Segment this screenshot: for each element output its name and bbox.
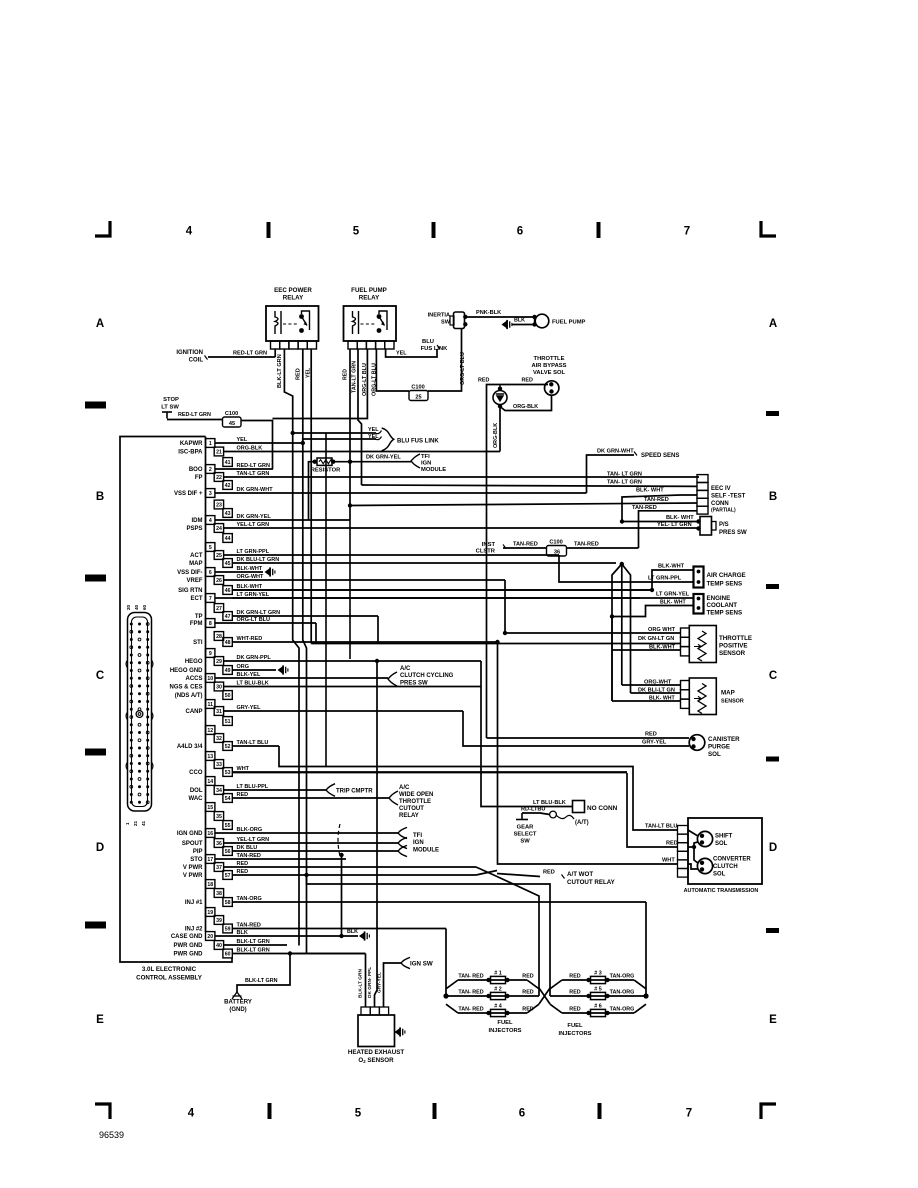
fusible link BLU FUS LINK (upper) <box>375 428 439 451</box>
border tick bottom 2 <box>433 1103 437 1119</box>
svg-text:# 4: # 4 <box>494 1004 502 1010</box>
border crop mark bottom-right <box>761 1104 776 1119</box>
switch IGN SW <box>401 957 433 968</box>
svg-text:DOL: DOL <box>190 788 203 794</box>
pin 42 <box>223 481 232 490</box>
svg-text:INJECTORS: INJECTORS <box>488 1028 521 1034</box>
wire BLK-WHT branch to air charge temp sensor <box>232 570 694 592</box>
pin 1 KAPWR <box>180 437 303 447</box>
svg-text:TAN-ORG: TAN-ORG <box>610 974 635 980</box>
svg-text:36: 36 <box>554 550 560 556</box>
wire row to TPS DK GN-LT GN <box>311 643 681 645</box>
svg-text:ENGINE: ENGINE <box>707 595 731 602</box>
solenoid CONVERTER CLUTCH SOL <box>697 857 751 878</box>
border tick top 2 <box>432 222 436 238</box>
wire label WHT trans <box>662 858 675 864</box>
pin 38 <box>214 889 223 898</box>
svg-text:AIR BYPASS: AIR BYPASS <box>531 363 566 369</box>
svg-text:16: 16 <box>207 831 213 837</box>
svg-text:DK GRN- PPL: DK GRN- PPL <box>367 967 373 998</box>
svg-text:5: 5 <box>355 1108 362 1120</box>
svg-text:10: 10 <box>207 676 213 682</box>
wire label LT GRN-YEL coolant <box>656 592 690 598</box>
svg-text:LT BLU-PPL: LT BLU-PPL <box>237 784 269 790</box>
svg-text:STI: STI <box>193 640 203 646</box>
pin 35 <box>214 812 223 821</box>
svg-text:1: 1 <box>209 441 212 447</box>
svg-text:DK GRN-YEL: DK GRN-YEL <box>366 455 401 461</box>
svg-text:24: 24 <box>216 526 222 532</box>
svg-text:RED: RED <box>478 378 489 384</box>
sensor HEATED EXHAUST O2 SENSOR <box>348 1007 404 1064</box>
svg-text:33: 33 <box>216 762 222 768</box>
svg-text:IGN: IGN <box>421 461 431 467</box>
svg-text:26: 26 <box>216 578 222 584</box>
svg-text:RED: RED <box>569 974 580 980</box>
wire label BLK-LT GRN battery <box>245 978 278 984</box>
svg-text:BLK-WHT: BLK-WHT <box>658 564 685 570</box>
pin 19 <box>206 908 215 917</box>
svg-text:ORG: ORG <box>237 664 250 670</box>
svg-text:E: E <box>769 1014 777 1026</box>
solenoid CANISTER PURGE SOL <box>689 735 740 758</box>
svg-text:CUTOUT RELAY: CUTOUT RELAY <box>567 879 616 886</box>
pin 27 <box>214 604 223 613</box>
svg-text:TAN-RED: TAN-RED <box>632 505 657 511</box>
svg-text:5: 5 <box>353 226 360 238</box>
svg-text:BLU FUS LINK: BLU FUS LINK <box>397 438 439 444</box>
svg-text:6: 6 <box>517 226 523 238</box>
svg-text:IGN: IGN <box>413 840 424 846</box>
wire BLK-LT GRN to O2 sensor <box>290 954 366 1008</box>
svg-text:7: 7 <box>686 1108 692 1120</box>
connector EEC IV SELF-TEST CONN (PARTIAL) <box>697 475 746 515</box>
svg-text:# 1: # 1 <box>494 971 502 977</box>
grid row label D left <box>96 842 104 854</box>
svg-text:57: 57 <box>225 873 231 879</box>
pin 25 ACT <box>190 549 559 559</box>
svg-text:NO CONN: NO CONN <box>587 805 618 812</box>
svg-text:FUEL: FUEL <box>567 1023 583 1029</box>
wire RED-LT GRN ignition coil to EEC relay pin 1 <box>208 349 275 357</box>
pin 31 CANP <box>185 705 463 715</box>
svg-text:D: D <box>769 842 777 854</box>
svg-text:TP: TP <box>195 614 203 620</box>
svg-text:HEATED EXHAUST: HEATED EXHAUST <box>348 1049 404 1056</box>
pin 56 PIP <box>193 845 398 855</box>
svg-text:BATTERY: BATTERY <box>224 1000 252 1006</box>
svg-text:O2 SENSOR: O2 SENSOR <box>358 1057 394 1064</box>
svg-text:20: 20 <box>126 604 131 610</box>
svg-text:TAN-RED: TAN-RED <box>574 542 599 548</box>
wire DK GRN-YEL resistor to TFI ign module <box>333 460 411 464</box>
svg-text:7: 7 <box>209 596 212 602</box>
svg-text:BLU: BLU <box>422 339 434 345</box>
svg-text:38: 38 <box>216 891 222 897</box>
wire transmission internal <box>688 830 698 869</box>
svg-text:WHT: WHT <box>237 766 250 772</box>
grid column label 7 bottom <box>686 1108 692 1120</box>
svg-text:TFI: TFI <box>421 454 430 460</box>
svg-text:50: 50 <box>225 693 231 699</box>
svg-text:31: 31 <box>216 709 222 715</box>
wire label ORG-BLK <box>513 404 538 410</box>
svg-text:41: 41 <box>225 460 231 466</box>
pin 37 V PWR <box>183 861 476 871</box>
svg-text:BLK- WHT: BLK- WHT <box>660 600 686 606</box>
svg-text:CASE GND: CASE GND <box>171 934 203 940</box>
svg-text:SIG RTN: SIG RTN <box>178 588 202 594</box>
svg-text:# 6: # 6 <box>594 1004 602 1010</box>
svg-text:RED: RED <box>543 870 555 876</box>
svg-text:2: 2 <box>209 467 212 473</box>
svg-text:RED-LT GRN: RED-LT GRN <box>233 351 267 357</box>
svg-text:RELAY: RELAY <box>399 813 419 819</box>
connector C100 pin 25 <box>409 385 428 401</box>
svg-text:28: 28 <box>216 634 222 640</box>
pin 26 VREF <box>186 574 505 584</box>
svg-text:45: 45 <box>229 421 235 427</box>
node X junction V PWR feeds <box>476 867 497 877</box>
svg-text:RED-LT GRN: RED-LT GRN <box>178 412 211 418</box>
svg-text:60: 60 <box>142 604 147 610</box>
wire label YEL vertical <box>306 367 312 378</box>
wire label TAN-RED left of C100-36 <box>513 542 538 548</box>
svg-text:MODULE: MODULE <box>413 848 439 854</box>
svg-text:TAN- RED: TAN- RED <box>458 974 483 980</box>
border crop mark bottom-left <box>95 1104 110 1119</box>
wire BLK-WHT to P/S pressure switch <box>620 515 698 524</box>
grid row label A left <box>96 318 104 330</box>
svg-text:SW: SW <box>520 839 530 845</box>
svg-text:4: 4 <box>188 1108 195 1120</box>
svg-text:TAN- RED: TAN- RED <box>458 1007 483 1013</box>
svg-text:SENSOR: SENSOR <box>719 650 746 657</box>
svg-text:INJ #1: INJ #1 <box>185 900 203 906</box>
svg-text:YEL: YEL <box>306 367 312 378</box>
svg-text:LT BLU-BLK: LT BLU-BLK <box>237 681 269 687</box>
svg-text:PWR GND: PWR GND <box>174 943 204 949</box>
svg-text:AUTOMATIC TRANSMISSION: AUTOMATIC TRANSMISSION <box>684 888 759 894</box>
svg-text:RED: RED <box>522 1007 533 1013</box>
wire label ORG-LT BLU vertical 1 <box>362 363 368 396</box>
svg-text:8: 8 <box>209 621 212 627</box>
pin 59 INJ #2 <box>185 923 446 933</box>
svg-text:CONN: CONN <box>711 501 729 507</box>
wire rail RED left group <box>497 877 539 997</box>
svg-text:BLK: BLK <box>514 318 525 324</box>
module label 3.0L ELECTRONIC CONTROL ASSEMBLY <box>136 966 203 982</box>
border dash right <box>766 584 779 589</box>
pin 4 IDM <box>192 514 351 524</box>
ground chassis case ground <box>342 929 370 941</box>
wire DK GRN-PPL to O2 sensor <box>375 659 380 1007</box>
wire ORG-LT BLU inertia switch to C100 <box>428 329 462 392</box>
wire label DK GRN-PPL vertical O2 <box>367 967 373 998</box>
svg-text:RED: RED <box>237 861 249 867</box>
svg-text:BLK-LT GRN: BLK-LT GRN <box>358 969 364 998</box>
svg-text:INJECTORS: INJECTORS <box>558 1031 591 1037</box>
svg-text:ORG-BLK: ORG-BLK <box>513 404 538 410</box>
svg-text:SOL: SOL <box>715 841 728 847</box>
wire RED from fuel pump relay <box>349 349 351 520</box>
solenoid THROTTLE AIR BYPASS VALVE SOL <box>545 381 559 395</box>
wire ORG-LT BLU pin8 riser <box>315 623 317 644</box>
svg-text:C100: C100 <box>549 540 562 546</box>
pin 28 <box>214 632 223 641</box>
svg-text:TRIP CMPTR: TRIP CMPTR <box>336 789 373 795</box>
pin 32 <box>214 734 223 743</box>
ground chassis O2 sensor <box>395 1027 405 1036</box>
svg-text:46: 46 <box>225 588 231 594</box>
wire GRY-YEL to O2 sensor and IGN SW <box>384 963 402 1007</box>
svg-text:RED: RED <box>666 841 678 847</box>
injector group left rows <box>443 971 539 1035</box>
pin 13 <box>206 752 215 761</box>
border crop mark top-right <box>761 221 776 236</box>
grid row label B left <box>96 491 104 503</box>
svg-text:FUEL PUMP: FUEL PUMP <box>351 287 387 294</box>
svg-text:WHT: WHT <box>662 858 675 864</box>
svg-text:TFI: TFI <box>413 833 422 839</box>
vertical RED trunk from fuel pump relay lower <box>348 503 352 659</box>
sensor THROTTLE POSITIVE SENSOR <box>681 626 753 663</box>
svg-text:SPOUT: SPOUT <box>182 841 203 847</box>
svg-text:1: 1 <box>125 822 130 825</box>
wire label LT GRN-PPL air charge <box>648 576 682 582</box>
svg-text:21: 21 <box>133 820 138 826</box>
pin 12 <box>206 726 215 735</box>
svg-text:GEAR: GEAR <box>517 825 535 831</box>
svg-text:WAC: WAC <box>189 796 204 802</box>
pin 30 NGS & CES <box>169 681 481 691</box>
svg-text:BLK-WHT: BLK-WHT <box>649 645 676 651</box>
svg-text:RED: RED <box>296 368 302 380</box>
wire ORG-BLK valve to diode <box>500 395 552 452</box>
switch GEAR SELECT SW label <box>514 825 537 845</box>
wire label BLK-WHT tps <box>649 645 676 651</box>
border tick top 1 <box>267 222 271 238</box>
wire DK GRN-LT GRN riser to TPS row <box>377 616 379 644</box>
svg-text:GRY-YEL: GRY-YEL <box>642 740 667 746</box>
svg-text:12: 12 <box>207 728 213 734</box>
svg-text:ORG WHT: ORG WHT <box>648 627 676 633</box>
svg-text:ORG-LT BLU: ORG-LT BLU <box>237 617 271 623</box>
grid column label 7 top <box>684 226 690 238</box>
svg-text:LT BLU-BLK: LT BLU-BLK <box>533 800 566 806</box>
svg-text:BOO: BOO <box>189 467 203 473</box>
svg-text:TEMP SENS: TEMP SENS <box>707 610 743 617</box>
wire label BLK-WHT air charge <box>658 564 685 570</box>
svg-text:40: 40 <box>216 943 222 949</box>
relay K2 FUEL PUMP RELAY <box>344 306 397 349</box>
svg-text:PNK-BLK: PNK-BLK <box>476 310 501 316</box>
pin 48 STI <box>193 636 497 646</box>
svg-text:13: 13 <box>207 754 213 760</box>
svg-text:FUS LINK: FUS LINK <box>421 346 449 352</box>
node junction instrument cluster feed <box>476 542 546 555</box>
svg-text:4: 4 <box>209 518 212 524</box>
svg-text:(PARTIAL): (PARTIAL) <box>711 508 736 514</box>
svg-text:TAN-LT GRN: TAN-LT GRN <box>237 471 270 477</box>
svg-text:TAN- RED: TAN- RED <box>458 990 483 996</box>
battery ground terminal <box>224 992 252 1013</box>
wire label RED left <box>478 378 489 384</box>
pin 45 MAP <box>189 557 616 567</box>
svg-text:TAN-RED: TAN-RED <box>513 542 538 548</box>
relay K1 EEC POWER RELAY label <box>274 287 312 302</box>
svg-text:27: 27 <box>216 606 222 612</box>
wire ORG-WHT to MAP <box>622 684 681 686</box>
svg-text:RED: RED <box>237 869 249 875</box>
connector transmission stubs <box>678 826 689 878</box>
svg-text:YEL- LT GRN: YEL- LT GRN <box>657 522 692 528</box>
border tick bottom 1 <box>268 1103 272 1119</box>
svg-text:EEC IV: EEC IV <box>711 486 731 492</box>
solenoid SHIFT SOL <box>697 831 732 847</box>
grid column label 4 bottom <box>188 1108 195 1120</box>
svg-text:RELAY: RELAY <box>283 295 304 302</box>
vertical trunk x326 <box>325 433 327 767</box>
grid row label A right <box>769 318 777 330</box>
svg-text:YEL-LT GRN: YEL-LT GRN <box>237 522 270 528</box>
svg-text:BLK-LT GRN: BLK-LT GRN <box>237 939 270 945</box>
wire label BLK-WHT map <box>649 696 675 702</box>
svg-text:THROTTLE: THROTTLE <box>534 356 565 362</box>
wire RED-LT GRN stop lt sw to C100 <box>167 419 223 421</box>
svg-text:HEGO: HEGO <box>185 659 203 665</box>
border crop mark top-left <box>95 221 110 236</box>
pin 10 ACCS <box>185 672 388 682</box>
pin 2 BOO <box>189 463 273 473</box>
sensor ENGINE COOLANT TEMP SENS <box>694 594 743 617</box>
svg-text:RED: RED <box>522 990 533 996</box>
resistor in DK GRN-YEL line <box>309 458 342 520</box>
connector C100 pin 36 <box>547 540 567 557</box>
svg-text:COIL: COIL <box>189 358 204 364</box>
svg-text:INST: INST <box>482 542 496 548</box>
svg-text:48: 48 <box>225 640 231 646</box>
pin 50 (NDS A/T) <box>175 691 233 700</box>
wire ORG-LT BLU from fuel pump relay to row <box>273 349 368 419</box>
wire TAN-ORG run to injectors <box>645 902 647 996</box>
svg-text:DK GRN-LT GRN: DK GRN-LT GRN <box>237 610 281 616</box>
svg-text:TAN- LT GRN: TAN- LT GRN <box>607 472 642 478</box>
svg-text:CUTOUT: CUTOUT <box>399 806 424 812</box>
svg-text:YEL: YEL <box>237 437 248 443</box>
svg-text:RED: RED <box>569 1007 580 1013</box>
sensor SPEED SENS <box>597 449 679 460</box>
svg-text:17: 17 <box>207 857 213 863</box>
wire ORG-WHT to TPS <box>503 580 681 635</box>
svg-text:BLK-LT GRN: BLK-LT GRN <box>245 978 278 984</box>
svg-text:BLK-ORG: BLK-ORG <box>237 827 263 833</box>
pin 60 PWR GND <box>174 948 366 958</box>
wire RED to throttle air bypass valve <box>487 385 549 739</box>
connector C100 pin 45 <box>223 411 242 427</box>
svg-text:DK BLU: DK BLU <box>237 845 258 851</box>
wire label ORG-LT BLU vertical 2 <box>372 363 378 396</box>
wire PNK-BLK inertia switch to fuel pump <box>463 315 537 327</box>
diode clamp throttle air bypass <box>493 385 507 409</box>
pin 52 A4LD 3/4 <box>177 740 279 750</box>
svg-text:37: 37 <box>216 865 222 871</box>
pin 16 IGN GND <box>177 827 398 837</box>
svg-text:3: 3 <box>209 491 212 497</box>
svg-text:IGN GND: IGN GND <box>177 831 203 837</box>
wire label RED vertical fuel pump relay <box>343 369 349 380</box>
wire label BLK-LT GRN vertical O2 <box>358 969 364 998</box>
wire DK GRN-WHT to speed sensor <box>587 455 635 493</box>
svg-text:A/C: A/C <box>400 666 411 672</box>
svg-text:DK GRN-WHT: DK GRN-WHT <box>237 487 274 493</box>
svg-text:TAN- LT GRN: TAN- LT GRN <box>607 480 642 486</box>
svg-text:LT GRN-PPL: LT GRN-PPL <box>648 576 682 582</box>
svg-text:CANISTER: CANISTER <box>708 736 740 743</box>
svg-text:29: 29 <box>216 659 222 665</box>
pin 9 <box>206 649 215 658</box>
svg-text:STO: STO <box>190 857 203 863</box>
svg-text:BLK- WHT: BLK- WHT <box>666 515 694 521</box>
pin 3 VSS DIF + <box>174 487 587 497</box>
svg-text:ORG-BLK: ORG-BLK <box>493 423 499 448</box>
relay A/C WIDE OPEN THROTTLE CUTOUT RELAY <box>389 785 433 819</box>
wire label GRY-YEL canister <box>642 740 667 746</box>
svg-text:42: 42 <box>225 483 231 489</box>
svg-text:25: 25 <box>415 395 421 401</box>
svg-text:WIDE OPEN: WIDE OPEN <box>399 792 433 798</box>
svg-text:SENSOR: SENSOR <box>721 699 744 705</box>
pin 46 SIG RTN <box>178 584 652 594</box>
pin 14 <box>206 777 215 786</box>
svg-text:CLUTCH: CLUTCH <box>713 864 738 870</box>
svg-text:V PWR: V PWR <box>183 873 203 879</box>
svg-text:18: 18 <box>207 882 213 888</box>
wire label TAN-LT GRN vertical <box>352 361 358 393</box>
svg-text:RED: RED <box>343 369 349 380</box>
svg-text:BLK-YEL: BLK-YEL <box>237 672 261 678</box>
pin 44 <box>223 534 232 543</box>
svg-text:54: 54 <box>225 796 231 802</box>
svg-text:BLK- WHT: BLK- WHT <box>649 696 675 702</box>
grid column label 5 bottom <box>355 1108 362 1120</box>
svg-text:58: 58 <box>225 900 231 906</box>
wire LT GRN-YEL to coolant temp sensor <box>232 597 694 599</box>
wire label BLK-LT GRN vertical <box>277 354 283 388</box>
grid column label 6 top <box>517 226 523 238</box>
svg-text:MAP: MAP <box>721 690 735 697</box>
svg-text:14: 14 <box>207 779 213 785</box>
grid row label E right <box>769 1014 777 1026</box>
svg-text:INJ #2: INJ #2 <box>185 927 203 933</box>
pin 36 SPOUT <box>182 837 398 847</box>
wire RED-LT GRN C100 to pin 2 BOO <box>241 421 273 470</box>
svg-text:RED: RED <box>522 378 533 384</box>
wire BLK-WHT to MAP <box>612 617 681 702</box>
svg-text:RED: RED <box>237 792 249 798</box>
svg-text:5: 5 <box>209 545 212 551</box>
grid row label C left <box>96 670 104 682</box>
wire label ORG-LT BLU vertical inertia <box>460 352 466 385</box>
svg-text:GRY-YEL: GRY-YEL <box>377 972 383 993</box>
border tick top 3 <box>597 222 601 238</box>
wire labels YEL YEL <box>368 427 379 440</box>
svg-text:# 2: # 2 <box>494 987 502 993</box>
svg-text:BLK: BLK <box>347 929 358 935</box>
svg-text:BLK-LT GRN: BLK-LT GRN <box>277 354 283 388</box>
switch P/S PRES SW <box>696 517 747 537</box>
wire TAN-RED run to injectors <box>445 929 447 997</box>
